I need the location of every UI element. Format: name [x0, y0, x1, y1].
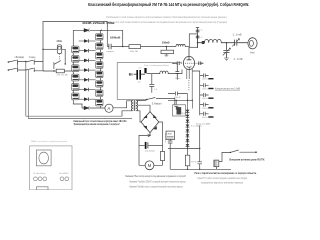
anode chain vertical [196, 28, 199, 49]
lamp 220в label [57, 40, 63, 43]
panel caption [31, 140, 67, 143]
neon lamp HL1 [42, 45, 65, 62]
switch S2 pole B [26, 68, 34, 72]
svg-text:Загр. Стабилитроны(10шт): Загр. Стабилитроны(10шт) [144, 65, 169, 67]
bias bottom wire [168, 148, 200, 149]
voltage multiplier left bus [73, 45, 82, 108]
svg-text:Сб: Сб [200, 29, 202, 31]
label конденсаторы 1,6кВ [215, 88, 240, 91]
svg-text:1000пФ: 1000пФ [202, 116, 210, 119]
svg-text:Ант: Ант [250, 50, 255, 54]
relay actuator dashed link [59, 54, 61, 61]
relay contact K1.1 [54, 61, 66, 69]
svg-text:220в: 220в [57, 40, 63, 43]
cap below heater wire [174, 100, 178, 109]
electrolytic capacitor column left C1-C5 [72, 46, 79, 100]
bridge right wire [159, 122, 163, 146]
switch 3.Накал [146, 98, 175, 106]
diode chain stack [186, 109, 190, 149]
resistor R inrush [56, 69, 64, 73]
svg-text:100кФ: 100кФ [162, 41, 171, 45]
B+ rail along chassis top [43, 22, 107, 72]
svg-text:100,0х50в: 100,0х50в [145, 150, 156, 152]
svg-text:10 шт: 10 шт [175, 78, 181, 80]
svg-text:Вст.Ант.Анод: Вст.Ант.Анод [33, 172, 46, 175]
svg-text:Классический безтрансформаторн: Классический безтрансформаторный УМ ГИ-7… [88, 2, 249, 7]
title [88, 2, 249, 7]
variable capacitor shunt [223, 43, 231, 61]
filter electrolytic C motor [139, 142, 163, 153]
tube V1 envelope [183, 56, 194, 69]
input coupling capacitor [134, 68, 145, 84]
main AC wire with resistor [43, 70, 74, 71]
svg-text:1000пФ: 1000пФ [202, 107, 210, 110]
svg-text:А: А [107, 106, 110, 111]
svg-text:Особенности этой схемы являетс: Особенности этой схемы является использо… [106, 15, 227, 19]
panel label right [59, 173, 69, 175]
anode block box [189, 34, 197, 47]
cap 1600пФ label [110, 35, 121, 39]
mains cord double line down and right [26, 62, 132, 119]
label mark dark [200, 29, 204, 44]
panel buttons left [34, 177, 47, 181]
diode chain label right [191, 125, 202, 127]
switch S2 Анод label [29, 56, 36, 59]
resistor R2 grid leak [161, 47, 174, 57]
svg-text:Реле с парой контактов изолиро: Реле с парой контактов изолировано от ко… [195, 171, 257, 175]
grid cap right [199, 61, 204, 65]
junction dots right bus [100, 33, 101, 100]
wire rail drop to grid feed [101, 30, 124, 48]
svg-text:1...6 пФ: 1...6 пФ [234, 57, 243, 61]
svg-text:С2(б): С2(б) [180, 113, 185, 115]
rf choke L1 [176, 44, 185, 46]
label Вх [129, 73, 133, 77]
label Ант [250, 50, 255, 54]
switch S2 pole A [26, 60, 34, 65]
svg-text:Особенности этой схемы являетс: Особенности этой схемы является использо… [106, 20, 227, 24]
label 1...6 пФ top [233, 32, 242, 36]
heater wire low [168, 100, 193, 101]
bridge bottom to motor loop [139, 133, 151, 166]
svg-text:470 Ом 2Вт: 470 Ом 2Вт [57, 75, 69, 77]
diode D top [84, 29, 89, 33]
antenna jack [248, 38, 257, 49]
svg-text:RA9QAW в этом обозначается в п: RA9QAW в этом обозначается в передней па… [31, 140, 67, 143]
junction dots left bus [73, 45, 74, 93]
heater text bold [74, 120, 127, 126]
panel buttons right [60, 177, 69, 181]
svg-text:3.Накал: 3.Накал [152, 101, 162, 105]
blocking cap dark [145, 68, 146, 73]
left annotation block [126, 175, 187, 188]
cathode drop wires [188, 100, 193, 108]
fan motor M [139, 161, 163, 170]
svg-text:ТН 5к: ТН 5к [191, 161, 197, 163]
switch S1 pole A [8, 60, 17, 65]
capacitor 1600пФ [107, 44, 129, 49]
wire grid feed into block [185, 46, 189, 48]
svg-text:6 шт КД213: 6 шт КД213 [191, 125, 202, 127]
variable capacitor series [227, 39, 248, 47]
svg-text:слюдян.: слюдян. [106, 51, 115, 53]
transformer wires [122, 100, 147, 123]
svg-text:Вх: Вх [129, 73, 133, 77]
wire S2 to bus [34, 62, 44, 71]
multiplier bottom wire with diode D bottom [82, 106, 105, 110]
wire ammeter to transformer [113, 101, 132, 108]
wire R1 to grid node [141, 46, 177, 47]
resistor R motor [160, 146, 164, 166]
resistor R1 anode feed [129, 45, 141, 53]
wire to antenna relay [170, 126, 231, 171]
tube anode lead [187, 47, 192, 60]
ammeter A1 [105, 104, 113, 112]
relay cap below [168, 140, 173, 149]
label внешняя антенна [230, 157, 265, 161]
feedthrough row 1 [200, 74, 214, 120]
capacitor anode top [196, 30, 200, 32]
diode ladder D1-D7 [79, 39, 96, 101]
grid bypass capacitor below tube [175, 63, 181, 80]
switch S1 pole B [8, 68, 17, 72]
svg-text:М: М [148, 163, 152, 168]
svg-text:Внешняя антенна реле RX/TX: Внешняя антенна реле RX/TX [230, 157, 265, 161]
shunt cap to ground [149, 74, 158, 93]
relay K2 box ОБМОТ [166, 131, 175, 139]
relay dashed actuator [164, 134, 166, 143]
choke box with ferrite [173, 105, 186, 116]
svg-text:Внимание! Трубайте молот с хор: Внимание! Трубайте молот с хорошей изоля… [130, 185, 183, 188]
svg-text:Внимание!!! Вентилятор находит: Внимание!!! Вентилятор находится под дав… [126, 175, 187, 178]
multiplier top wire [73, 30, 101, 44]
note line 2 [106, 20, 227, 24]
tube grid dashed [181, 62, 201, 64]
cap sub label [106, 51, 115, 53]
resistor R inrush label [57, 75, 69, 77]
multiplier right bus [100, 30, 102, 108]
svg-text:1600пФ: 1600пФ [110, 35, 121, 39]
wire S1 to S2 top [18, 61, 27, 71]
panel lower square [36, 187, 48, 190]
label multiplier parts 1N4007 220мкФ 450в [82, 21, 115, 25]
heater bypass cap 1 [168, 92, 188, 100]
svg-text:1...6 пФ: 1...6 пФ [233, 32, 242, 36]
svg-text:Трансформатор накала изолирова: Трансформатор накала изолирован от корпу… [74, 123, 120, 126]
label 1...6 пФ bottom [234, 57, 243, 61]
transformer T1 [131, 100, 137, 111]
resistor 100кФ label [162, 41, 171, 45]
svg-text:1000пФ: 1000пФ [202, 88, 210, 91]
cathode box enclosure [117, 63, 182, 100]
front panel box [30, 146, 72, 190]
capacitor anode mid [196, 36, 200, 38]
label стабилитроны [144, 65, 169, 67]
svg-text:1000пФ: 1000пФ [202, 78, 210, 81]
cathode wire with coil L3 [147, 70, 182, 74]
switch S1 Вкл label [15, 56, 25, 59]
svg-text:1000пФ: 1000пФ [202, 97, 210, 100]
svg-text:ОБМ: ОБМ [167, 134, 172, 136]
electrolytic capacitor column right C6-C13 [96, 34, 103, 106]
panel label left [33, 172, 46, 175]
antenna relay contact [219, 150, 257, 162]
svg-text:1.Вкл(авар): 1.Вкл(авар) [15, 56, 25, 59]
grid cap left [172, 61, 179, 65]
resistor R bias [185, 148, 196, 165]
anode coil L2 [198, 39, 228, 43]
svg-text:передачного закрытого контакта: передачного закрытого контактам ловивcss [201, 182, 244, 185]
mains input terminals [8, 61, 10, 71]
diode chain label left [180, 113, 185, 115]
svg-text:Вкл.ВКВЧ: Вкл.ВКВЧ [59, 173, 69, 175]
tube cathode and heater leads [187, 66, 193, 100]
relay K3 РЭС box [214, 160, 219, 167]
label запор [196, 123, 210, 125]
right annotation block [195, 171, 257, 184]
svg-text:Сб: Сб [200, 37, 202, 39]
svg-text:Внимание! Трубайте СЕМ-БУ с хо: Внимание! Трубайте СЕМ-БУ с хорошей изол… [130, 180, 186, 183]
svg-text:Конденсаторы на 1,6кВ: Конденсаторы на 1,6кВ [215, 88, 240, 91]
bridge rectifier VD [141, 112, 159, 133]
svg-text:2.Анод: 2.Анод [29, 56, 36, 59]
svg-text:У камня РТТУ у любдот с контак: У камня РТТУ у любдот с контакты передум… [197, 177, 247, 180]
meter bezel [36, 150, 51, 166]
note line 1 [106, 15, 227, 19]
bridge top wire [138, 105, 150, 111]
svg-text:100к 2Вт: 100к 2Вт [130, 51, 139, 53]
feedthrough ladder bus [192, 71, 200, 115]
switch S1 link [17, 62, 19, 71]
